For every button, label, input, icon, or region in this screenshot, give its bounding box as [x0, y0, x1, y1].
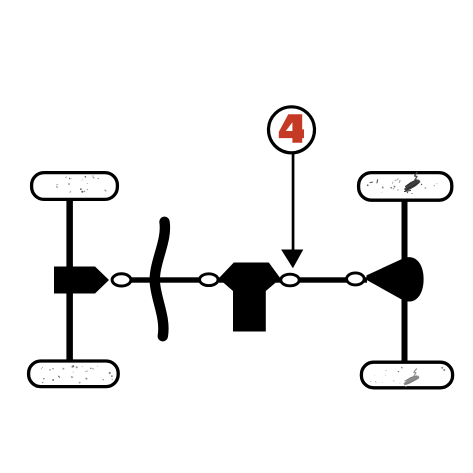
tire front-left: [32, 173, 118, 200]
tire rear-right: [361, 362, 452, 388]
callout leader line: [292, 152, 295, 251]
rear differential (cone): [367, 257, 424, 301]
scribble mark rear-right: [404, 369, 420, 388]
u-joint 4: [347, 273, 365, 285]
u-joint 2: [200, 274, 218, 286]
rear axle shaft (right vertical): [402, 185, 408, 365]
callout circle: [269, 107, 315, 153]
tire front-right: [359, 172, 452, 200]
front axle shaft (left vertical): [66, 185, 73, 365]
callout arrowhead: [281, 250, 303, 269]
u-joint 3: [281, 274, 299, 286]
front differential (pentagon): [54, 267, 109, 294]
tire rear-left: [29, 361, 119, 387]
scribble mark front-right: [404, 172, 422, 194]
u-joint 1: [112, 274, 131, 286]
transfer case: [219, 263, 281, 332]
drive shaft (horizontal): [112, 277, 367, 282]
flex joint S-curve: [155, 222, 165, 336]
label 4: [279, 114, 304, 143]
